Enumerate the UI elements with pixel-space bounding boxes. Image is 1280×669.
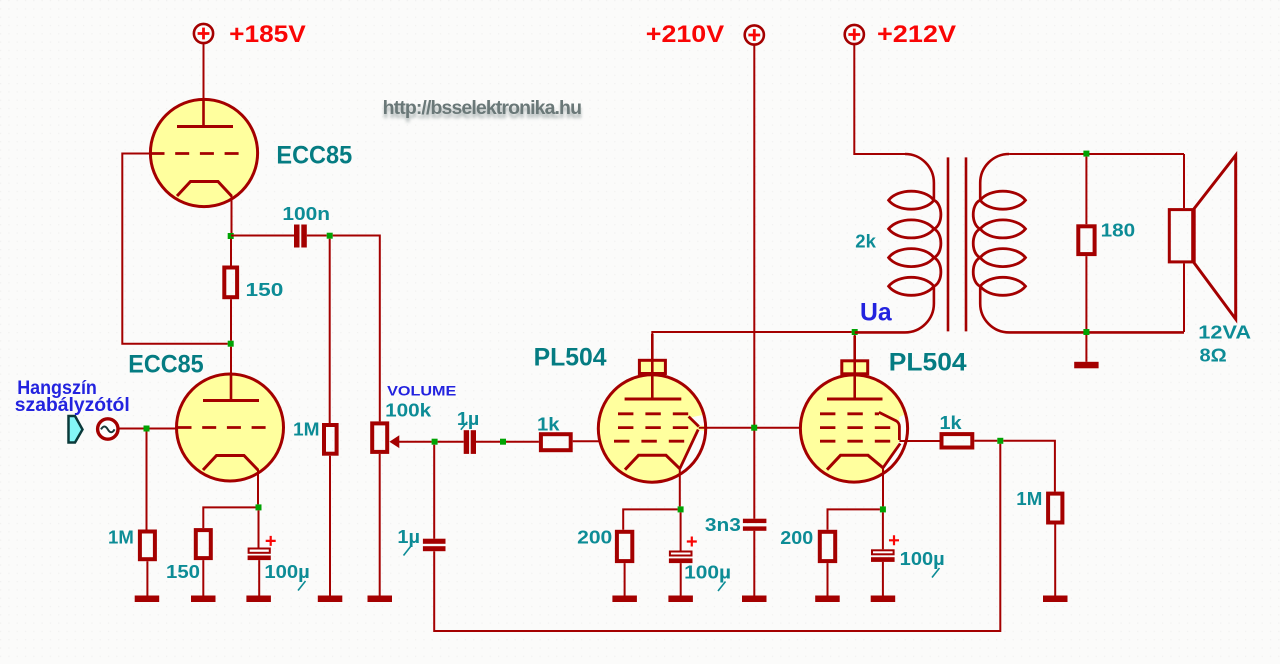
wire node to R150 cathode	[203, 507, 255, 528]
wire V4 cathode down	[882, 468, 884, 507]
node secondary top junction	[1083, 151, 1089, 157]
µ tail tick	[298, 581, 306, 591]
svg-text:+185V: +185V	[229, 21, 306, 48]
µ tail tick V4	[932, 568, 940, 578]
resistor R 1M (input, left)	[140, 432, 155, 596]
node grid V3 junction	[500, 439, 506, 445]
wire +212V down to transformer	[854, 44, 905, 154]
resistor R 150 (anode V1)	[224, 239, 237, 341]
ground under R200 V4	[815, 596, 840, 603]
label Hangszín szabályzótól	[15, 377, 130, 416]
pentode V4 PL504	[800, 336, 907, 482]
svg-text:ECC85: ECC85	[276, 142, 352, 170]
svg-text:100µ: 100µ	[684, 562, 731, 582]
ground under R180	[1074, 362, 1098, 369]
wire below secondary bottom node to ground	[1085, 335, 1087, 362]
capacitor C 100µ (V3 cathode)	[669, 512, 697, 595]
transformer T1 core	[948, 157, 966, 331]
wire node to volume pot top	[333, 236, 380, 422]
power +212V symbol	[845, 25, 864, 44]
node V2 cathode junction	[256, 504, 262, 510]
wire node to R200 (V4)	[828, 509, 880, 529]
wire cathode row to C100n	[231, 235, 294, 237]
svg-text:1M: 1M	[293, 420, 320, 440]
svg-text:8Ω: 8Ω	[1200, 346, 1227, 366]
svg-text:100k: 100k	[385, 401, 432, 421]
svg-text:VOLUME: VOLUME	[387, 383, 456, 399]
svg-text:2k: 2k	[855, 232, 877, 252]
wire R1k to V3 grid	[573, 440, 601, 442]
svg-text:180: 180	[1101, 221, 1136, 241]
resistor R 200 (V4 cathode)	[820, 532, 835, 596]
capacitor C 1µ (coupling)	[464, 430, 476, 454]
triode V2 ECC85 (lower)	[177, 374, 284, 481]
wire V4 to R1k feedback	[899, 440, 939, 442]
svg-text:200: 200	[577, 527, 612, 547]
speaker LS 12VA 8ohm	[1169, 154, 1235, 332]
input pennant symbol	[69, 416, 83, 443]
wire node to R200 (V3)	[623, 509, 677, 529]
µ tail tick V3	[718, 582, 726, 592]
µ tail tick coupling	[461, 422, 468, 430]
wire +210V rail down	[753, 45, 755, 519]
svg-text:12VA: 12VA	[1198, 322, 1251, 342]
resistor R 1k (grid stopper V3)	[541, 434, 571, 450]
wire node to R1k	[506, 441, 539, 443]
wire C100n to node	[307, 235, 327, 237]
node V3 cathode junction	[678, 506, 684, 512]
node secondary bottom junction	[1083, 329, 1089, 335]
node wiper junction	[432, 439, 438, 445]
resistor R 150 (cathode V2)	[196, 530, 211, 596]
node V4 cathode junction	[880, 506, 886, 512]
capacitor C 100µ (V2 cathode)	[248, 510, 276, 595]
svg-text:1k: 1k	[537, 414, 561, 434]
svg-text:100µ: 100µ	[900, 549, 945, 569]
ground under R150 cathode	[191, 596, 216, 603]
wire node to C1µ coupling	[438, 441, 464, 443]
capacitor C 1µ (feedback shunt)	[423, 445, 446, 552]
node screen rail junction	[751, 425, 757, 431]
svg-text:3n3: 3n3	[705, 515, 741, 535]
wire secondary top to speaker	[1009, 153, 1184, 155]
node Ua junction	[852, 329, 858, 335]
power +185V symbol	[194, 24, 213, 43]
wire V1 grid feedback to node below R150a	[122, 154, 227, 344]
ground under C100µ V3	[668, 596, 693, 603]
wire V2 cathode down	[257, 469, 259, 504]
wire feedback bottom run	[434, 444, 1000, 631]
wire node to V2 grid	[150, 428, 178, 430]
resistor R 180 (zobel)	[1078, 157, 1094, 329]
svg-text:http://bsselektronika.hu: http://bsselektronika.hu	[383, 97, 582, 119]
transformer T1 secondary lead curves	[980, 154, 1184, 332]
wire R1k to node	[974, 440, 997, 442]
svg-text:+210V: +210V	[646, 21, 724, 48]
transformer T1 secondary winding	[973, 191, 1025, 295]
wire pot wiper to node	[399, 441, 432, 443]
svg-text:+212V: +212V	[877, 21, 956, 48]
ground under potentiometer	[368, 596, 393, 603]
transformer T1 primary winding	[889, 191, 941, 295]
svg-text:1k: 1k	[940, 413, 963, 433]
wire V1 cathode down	[231, 195, 233, 236]
svg-text:Ua: Ua	[860, 298, 893, 326]
svg-text:200: 200	[780, 528, 813, 548]
transformer T1 primary lead curves	[855, 154, 934, 332]
node feedback / V2 plate junction	[228, 341, 234, 347]
ground under R1M input	[135, 596, 160, 603]
svg-text:1µ: 1µ	[397, 527, 420, 547]
node after C100n	[327, 233, 333, 239]
svg-text:100n: 100n	[282, 204, 330, 224]
svg-text:1M: 1M	[108, 528, 134, 548]
svg-text:1µ: 1µ	[457, 409, 479, 429]
wire node to R1M right	[1003, 441, 1055, 492]
triode V1 ECC85 (upper)	[150, 99, 257, 207]
watermark http://bsselektronika.hu	[383, 97, 582, 123]
wire C1µ to node	[476, 441, 500, 443]
svg-text:szabályzótól: szabályzótól	[15, 394, 130, 416]
wire plate bus V3/V4 to transformer	[652, 332, 851, 360]
wire AC source to grid node	[118, 428, 143, 430]
potentiometer VOLUME 100k	[372, 423, 399, 595]
ground under R200 V3	[612, 596, 637, 603]
wire Ua node to V4 top cap	[854, 335, 856, 360]
wire V3 cathode down	[679, 469, 681, 507]
resistor R 200 (V3 cathode)	[617, 532, 632, 596]
svg-text:PL504: PL504	[889, 349, 967, 377]
svg-text:150: 150	[166, 562, 200, 582]
node V1 cathode junction	[228, 233, 234, 239]
svg-text:150: 150	[246, 280, 284, 300]
ground under C3n3	[742, 596, 767, 603]
node V2 grid junction	[144, 426, 150, 432]
ground under C100µ V2	[246, 596, 271, 603]
resistor R 1k (V4)	[942, 434, 973, 447]
resistor R 1M (grid leak, x330)	[324, 239, 337, 596]
ground under R1M right	[1043, 596, 1068, 603]
ground under R1M x330	[318, 596, 343, 603]
wire +185V to V1 plate	[203, 43, 205, 126]
svg-text:ECC85: ECC85	[128, 351, 203, 379]
capacitor C 3n3	[743, 519, 767, 596]
svg-text:100µ: 100µ	[264, 562, 309, 582]
ground under C100µ V4	[871, 596, 896, 603]
capacitor C 100µ (V4 cathode)	[871, 512, 899, 595]
AC source symbol	[98, 419, 118, 439]
resistor R 1M (right)	[1048, 494, 1062, 596]
µ tail tick shunt	[404, 546, 412, 556]
power +210V symbol	[745, 25, 764, 44]
svg-text:1M: 1M	[1016, 489, 1042, 509]
capacitor C 100n	[294, 225, 307, 248]
pentode V3 PL504	[598, 334, 705, 482]
wire V3 screen to +210 node	[699, 427, 801, 429]
node feedback junction	[997, 438, 1003, 444]
svg-text:PL504: PL504	[534, 343, 607, 371]
wire node down to V2 plate	[230, 347, 232, 401]
